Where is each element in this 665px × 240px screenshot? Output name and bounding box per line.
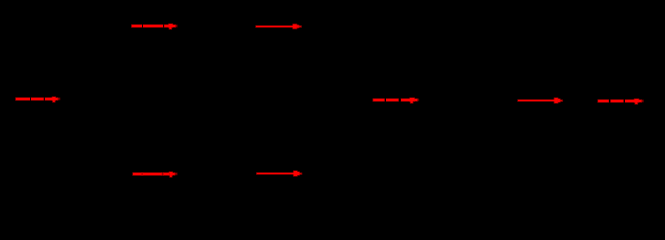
wire A4 shaft dash 2: [386, 99, 399, 101]
black glyph cuts in A1 shaft gaps: [141, 24, 144, 28]
wire A6 shaft dash 1: [598, 100, 609, 102]
arrowhead A4: [410, 98, 414, 101]
reaction arrow A4 (centre): [373, 98, 418, 103]
reaction arrow A2 (top-right): [256, 24, 301, 28]
arrowhead A6: [635, 99, 639, 102]
wire A7 shaft dash 1: [133, 173, 142, 175]
wire A3 shaft dash 2: [31, 98, 44, 100]
arrowhead A8: [294, 171, 297, 176]
arrowhead A1 lower wing tick: [169, 27, 171, 29]
arrowhead A2: [293, 24, 297, 28]
reaction arrow A5 (centre-right): [518, 98, 562, 103]
reaction arrow A3 (middle far-left): [16, 97, 60, 102]
wire A1 shaft dash 1: [132, 25, 142, 27]
arrowhead A3: [52, 97, 55, 100]
wire A1 shaft dash 2: [143, 25, 163, 27]
wire A1 shaft dash 3: [164, 25, 169, 27]
arrowhead A7 lower wing tick: [170, 175, 172, 177]
arrowhead A3 lower wing tick: [53, 100, 55, 102]
wire A3 shaft dash 1: [16, 98, 30, 100]
wire A7 shaft dash 3: [163, 173, 169, 175]
arrowhead A4 lower wing tick: [411, 101, 413, 103]
black glyph cuts in A3 shaft gaps: [29, 97, 32, 101]
wire A4 shaft dash 3: [401, 99, 410, 101]
black glyph cuts in A6 shaft gaps: [609, 99, 611, 103]
arrowhead A6 lower wing tick: [635, 102, 637, 104]
wire A3 shaft dash 3: [45, 98, 53, 100]
wire A6 shaft dash 3: [625, 100, 635, 102]
wire A6 shaft dash 2: [610, 100, 623, 102]
arrowhead A7: [169, 172, 172, 175]
wire A5 shaft: [518, 100, 555, 101]
wire A8 shaft: [257, 173, 294, 174]
wire A7 shaft dash 2: [143, 173, 162, 175]
reaction arrow A1 (top-left branch): [132, 24, 177, 29]
black glyph cuts in A4 shaft gaps: [385, 98, 386, 102]
arrowhead A5: [554, 98, 557, 103]
wire A4 shaft dash 1: [373, 99, 385, 101]
arrowhead A1: [169, 24, 173, 27]
wire A2 shaft: [256, 26, 294, 27]
reaction arrow A8 (bottom-right): [257, 171, 302, 176]
reaction arrow A6 (far-right): [598, 99, 643, 104]
wire A7 shaft dim gap fills: [142, 173, 143, 175]
reaction arrow A7 (bottom-left branch): [133, 172, 177, 177]
